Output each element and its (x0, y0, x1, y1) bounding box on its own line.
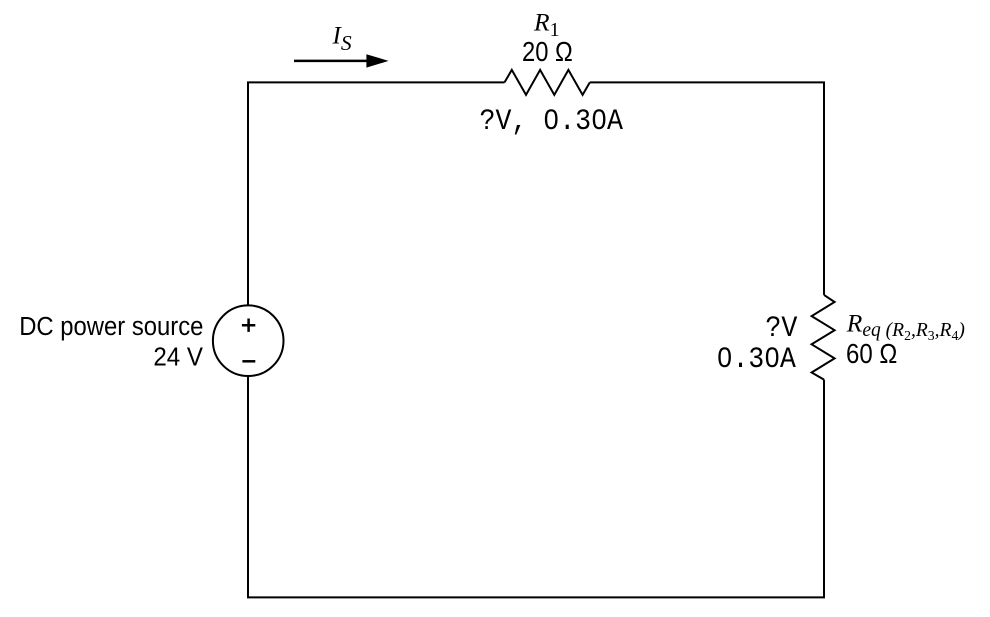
zero dot covers (plain zeros like target) (548, 115, 553, 122)
wire top-right segment (from R1 to Req) (590, 82, 824, 295)
svg-text:DC power source: DC power source (19, 313, 203, 341)
wire top-left segment (from source top to R1) (248, 82, 505, 305)
svg-text:60 Ω: 60 Ω (846, 338, 897, 369)
DC power source V1 (circle) (213, 305, 284, 376)
current arrow IS (294, 60, 368, 63)
minus terminal (242, 360, 255, 363)
resistor R1 (zigzag, 20 ohm, top wire) (505, 70, 590, 95)
plus terminal (242, 319, 255, 332)
wire bottom loop (Req bottom, bottom wire, up to source bottom) (248, 376, 824, 597)
svg-text:24 V: 24 V (153, 341, 203, 371)
svg-text:?V: ?V (765, 312, 797, 346)
zero dot covers (plain zeros like target) (722, 354, 728, 361)
resistor Req (zigzag, 60 ohm, right wire) (812, 295, 835, 380)
svg-text:0.30A: 0.30A (717, 343, 796, 377)
svg-text:20 Ω: 20 Ω (522, 36, 573, 67)
